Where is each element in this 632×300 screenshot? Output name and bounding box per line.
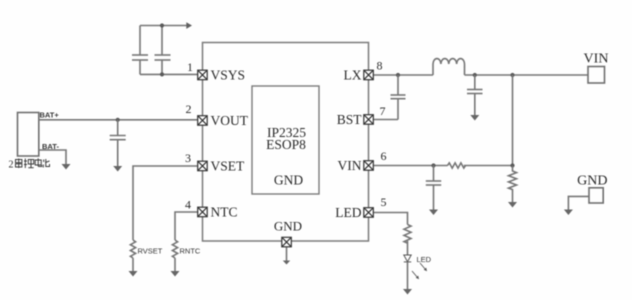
wire GND box to ground	[568, 196, 589, 209]
svg-text:7: 7	[380, 104, 386, 118]
pin 2 VOUT square	[198, 116, 208, 126]
ground arrow under RVSET	[129, 271, 138, 277]
capacitor C3 bottom lead	[117, 140, 119, 166]
capacitor C6 bottom lead	[433, 185, 435, 209]
pin 8 LX square	[364, 70, 374, 80]
capacitor C6 top lead	[433, 166, 435, 181]
glyph 电	[35, 158, 42, 166]
terminal GND box	[589, 188, 603, 203]
wire R2 to ground	[512, 191, 514, 202]
capacitor C4 bottom lead	[397, 99, 399, 120]
wire BAT+ to pin 2 VOUT	[39, 119, 198, 121]
svg-text:BAT+: BAT+	[40, 110, 60, 119]
capacitor C2 top lead	[161, 26, 163, 55]
pin 3 VSET square	[198, 161, 208, 171]
svg-text:VIN: VIN	[584, 52, 609, 67]
wire R3 to LED1	[407, 241, 409, 255]
ground arrow under C5	[470, 115, 479, 121]
wire VIN rail down branch	[512, 75, 514, 166]
pin 1 VSYS square	[198, 70, 208, 80]
battery BT1 2串锂电池	[18, 113, 39, 157]
capacitor C1 top lead	[139, 26, 141, 55]
svg-text:5: 5	[381, 195, 387, 209]
junction on BAT+ wire	[116, 118, 120, 122]
wire pin 4 NTC to RNTC	[175, 212, 198, 240]
svg-text:2: 2	[9, 160, 14, 171]
ground arrow under RNTC	[171, 271, 180, 277]
svg-text:VIN: VIN	[338, 158, 362, 173]
svg-text:RNTC: RNTC	[180, 247, 201, 256]
resistor R1 series	[448, 163, 466, 168]
svg-text:BAT-: BAT-	[42, 142, 59, 151]
svg-text:ESOP8: ESOP8	[266, 137, 306, 152]
junction on pin1 wire	[160, 72, 164, 76]
capacitor C3	[110, 136, 126, 140]
wire GND pin stub	[286, 247, 288, 260]
wire inductor to VIN terminal	[465, 74, 589, 76]
wire RNTC to ground	[174, 258, 176, 271]
value label 2串锂电池	[9, 158, 50, 170]
pin 7 BST square	[364, 115, 374, 125]
ground arrow under BAT-	[62, 164, 71, 170]
capacitor C5 top lead	[474, 75, 476, 89]
capacitor C6	[426, 181, 441, 185]
wire R1 to junction	[464, 165, 513, 167]
junction VIN rail branch	[510, 73, 514, 77]
svg-text:3: 3	[185, 151, 191, 165]
svg-text:BST: BST	[337, 112, 363, 127]
svg-text:RVSET: RVSET	[138, 247, 163, 256]
svg-text:LED: LED	[417, 255, 432, 264]
pin 4 NTC square	[198, 207, 208, 217]
svg-text:6: 6	[381, 149, 387, 163]
junction R2 node	[510, 163, 514, 167]
svg-text:NTC: NTC	[211, 205, 238, 220]
svg-text:8: 8	[377, 59, 383, 73]
svg-text:GND: GND	[274, 219, 302, 234]
wire RVSET to ground	[132, 258, 134, 271]
LED light arrow 2	[412, 271, 419, 279]
wire C4 to pin 7 BST	[373, 119, 398, 121]
capacitor C4 bootstrap	[391, 95, 406, 99]
capacitor C5	[467, 90, 483, 94]
capacitor C2	[155, 55, 171, 60]
svg-text:2: 2	[186, 102, 192, 116]
ground arrow under C6	[429, 210, 438, 216]
wire top-left power rail	[140, 25, 187, 27]
svg-text:VSYS: VSYS	[211, 68, 246, 83]
inductor L1	[433, 59, 465, 75]
wire pin 5 LED to R3	[373, 213, 407, 225]
capacitor C5 bottom lead	[474, 94, 476, 115]
op-amp U1 IP2325 body rectangle	[203, 43, 369, 242]
junction LX/BST node	[396, 73, 400, 77]
U1 inner outline rectangle	[252, 86, 319, 194]
resistor R2 pulldown	[509, 166, 517, 191]
wire pin 3 VSET to RVSET	[133, 166, 198, 240]
LED light arrow 1	[420, 263, 427, 271]
glyph 池	[43, 159, 49, 168]
glyph 串	[16, 159, 22, 169]
terminal VIN box	[588, 67, 605, 84]
pin 6 VIN square	[364, 161, 374, 171]
ground arrow under LED1	[403, 289, 412, 295]
capacitor C1	[132, 55, 148, 60]
svg-text:GND: GND	[274, 173, 303, 188]
glyph 锂	[24, 159, 34, 169]
capacitor C3 top lead	[117, 120, 119, 135]
pin 5 LED square	[364, 208, 374, 218]
resistor RVSET	[130, 240, 135, 258]
svg-text:4: 4	[185, 198, 191, 212]
wire pin 6 VIN to R1	[373, 165, 447, 167]
wire BAT-	[39, 150, 66, 164]
wire pin 8 LX to inductor	[373, 74, 433, 76]
capacitor C2 bottom lead	[161, 60, 163, 74]
ground arrow under R2	[508, 202, 517, 208]
capacitor C4 bootstrap top lead	[397, 75, 399, 95]
svg-text:VSET: VSET	[211, 159, 246, 174]
svg-text:1: 1	[187, 60, 193, 74]
junction C6 node	[431, 163, 435, 167]
capacitor C1 bottom lead	[139, 60, 141, 74]
resistor R3 LED series	[404, 225, 411, 244]
wire caps to pin 1 VSYS	[140, 73, 198, 75]
pin GND bottom square	[282, 237, 292, 247]
junction output cap node	[473, 73, 477, 77]
svg-text:LX: LX	[344, 68, 362, 83]
ground arrow under C3	[113, 166, 122, 172]
svg-text:GND: GND	[577, 174, 607, 189]
power arrow VSYS rail	[186, 22, 192, 29]
junction on power rail	[160, 23, 164, 27]
resistor RNTC	[172, 240, 177, 258]
LED LED1 diode	[404, 255, 411, 262]
ground arrow GND terminal	[564, 210, 573, 216]
svg-text:VOUT: VOUT	[211, 113, 249, 128]
ground arrow under GND pin	[283, 261, 290, 265]
wire LED1 to ground	[407, 262, 409, 289]
svg-text:LED: LED	[335, 205, 361, 220]
